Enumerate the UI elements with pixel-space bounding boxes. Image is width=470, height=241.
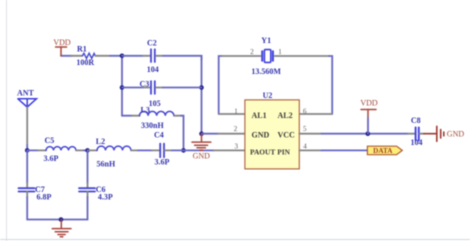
svg-text:1: 1 (278, 48, 282, 56)
wire row B left (122, 87, 143, 89)
node junction left rail row B (120, 85, 125, 90)
wire C4 to junction (172, 149, 184, 151)
svg-text:U2: U2 (263, 91, 273, 100)
crystal loop right vertical (329, 56, 332, 114)
svg-text:C2: C2 (147, 39, 157, 48)
node junction L3/C4/pin3 (181, 148, 186, 153)
capacitor C2 (151, 49, 155, 62)
wire VDD stub down to junction (367, 118, 369, 134)
wire C4 left pin (152, 149, 160, 151)
wire rail junction to pin2 (202, 133, 219, 135)
wire C8 right pin (419, 133, 424, 135)
svg-text:R1: R1 (77, 44, 87, 53)
pin 5 of U2 (299, 133, 321, 135)
crystal Y1 pin 1 line (275, 55, 329, 57)
wire L2 right pin (131, 149, 138, 151)
wire junction to L2 (88, 149, 90, 151)
wire left rail vertical (121, 56, 123, 116)
wire row A to C2 (122, 55, 143, 57)
wire pin5 to C8 (322, 133, 409, 135)
crystal loop left vertical (219, 56, 222, 114)
svg-text:100R: 100R (76, 58, 94, 67)
wire R1 left pin (71, 55, 82, 57)
svg-text:6: 6 (303, 108, 307, 116)
svg-text:C8: C8 (411, 116, 421, 125)
wire C2 right pin (156, 55, 163, 57)
svg-text:DATA: DATA (373, 147, 393, 155)
wire C4 right pin (165, 149, 172, 151)
svg-text:6.8P: 6.8P (37, 192, 52, 201)
svg-text:2: 2 (234, 125, 238, 133)
wire VDD stub to R1 (61, 55, 72, 57)
sheet border faint bottom line (0, 239, 470, 241)
pin 4 of U2 (299, 149, 321, 151)
pin 3 of U2 (214, 149, 245, 151)
capacitor C6 (79, 188, 95, 191)
power VDD left (56, 47, 67, 56)
svg-text:PAOUT: PAOUT (250, 147, 275, 156)
wire antenna node to C5 (27, 149, 38, 151)
wire L2 left pin (89, 149, 97, 151)
wire L3 right down to row D (181, 116, 184, 151)
svg-text:VDD: VDD (360, 98, 378, 107)
power VDD right (361, 110, 376, 119)
svg-text:3: 3 (234, 143, 238, 151)
wire junction to U2 pin3 (184, 149, 215, 151)
svg-text:ANT: ANT (17, 89, 35, 98)
node junction bottom ground (59, 217, 64, 222)
node junction right rail row B (199, 85, 204, 90)
capacitor C4 (160, 144, 164, 158)
node junction C5/L2/C6 (85, 148, 90, 153)
wire C3 to right rail (163, 87, 202, 89)
capacitor C7 (19, 188, 35, 191)
svg-text:105: 105 (149, 99, 161, 108)
wire C6 branch vertical (87, 150, 89, 183)
wire antenna vertical (26, 107, 28, 145)
wire C7 bottom to bottom rail (26, 192, 28, 198)
node junction right rail pin2 (199, 131, 204, 136)
svg-text:PIN: PIN (277, 147, 290, 156)
svg-text:C5: C5 (45, 136, 55, 145)
ground sideways right (424, 126, 444, 141)
svg-text:104: 104 (411, 138, 423, 147)
svg-text:L2: L2 (96, 137, 105, 146)
ground GND under rail (192, 134, 211, 150)
wire C8 left pin (408, 133, 415, 135)
svg-text:AL2: AL2 (278, 111, 293, 120)
wire antenna to row D (26, 145, 28, 150)
wire C5 to junction (84, 149, 88, 151)
wire C5 left pin (38, 149, 46, 151)
svg-text:4.3P: 4.3P (98, 192, 113, 201)
svg-text:330nH: 330nH (141, 121, 164, 130)
wire R1 to left rail (110, 55, 122, 57)
svg-text:L3: L3 (141, 106, 150, 115)
svg-text:GND: GND (252, 130, 270, 139)
wire L2 to C4 (138, 149, 152, 151)
svg-text:VDD: VDD (53, 38, 71, 47)
svg-text:C4: C4 (154, 131, 164, 140)
antenna ANT (18, 99, 37, 107)
inductor L2 (97, 146, 131, 150)
svg-text:2: 2 (250, 48, 254, 56)
node junction antenna row D (25, 148, 30, 153)
svg-text:1: 1 (234, 108, 238, 116)
crystal Y1 (262, 50, 273, 63)
node junction VDD on pin5 wire (366, 131, 371, 136)
inductor L3 (140, 111, 174, 115)
capacitor C3 (151, 81, 155, 94)
resistor R1 (82, 53, 95, 58)
wire C2 left pin (143, 55, 150, 57)
pin 2 of U2 (218, 133, 245, 135)
svg-text:5: 5 (303, 125, 307, 133)
wire L3 right pin (174, 115, 181, 117)
svg-text:3.6P: 3.6P (155, 158, 170, 167)
svg-text:C3: C3 (140, 80, 150, 89)
wire pin4 to DATA port (322, 149, 368, 151)
wire R1 right pin (95, 55, 110, 57)
wire C2 to right rail (163, 56, 202, 60)
U2 chip body (245, 100, 299, 169)
node junction left rail row A (120, 54, 125, 59)
wire right rail vertical (201, 56, 203, 134)
pin 1 of U2 (219, 113, 245, 115)
svg-text:AL1: AL1 (252, 111, 267, 120)
port DATA flag (367, 146, 402, 155)
crystal Y1 pin 2 line (222, 55, 261, 57)
svg-text:GND: GND (193, 151, 211, 160)
capacitor C8 (416, 127, 419, 140)
wire C6 bottom to bottom rail (87, 192, 89, 198)
wire C3 left pin (143, 87, 150, 89)
svg-text:GND: GND (447, 130, 465, 139)
sheet border faint left line (6, 0, 8, 241)
wire L3 left pin (132, 115, 140, 117)
svg-text:4: 4 (303, 142, 307, 150)
inductor-symbol C5 (46, 147, 76, 151)
wire C7 branch vertical (26, 150, 28, 183)
ground earth bottom (52, 220, 71, 237)
svg-text:56nH: 56nH (97, 159, 116, 168)
wire C3 right pin (156, 87, 163, 89)
pin 6 of U2 (299, 113, 332, 115)
svg-text:13.560M: 13.560M (251, 67, 281, 76)
svg-text:VCC: VCC (278, 130, 296, 139)
svg-text:Y1: Y1 (261, 36, 271, 45)
wire C5 right pin (76, 149, 84, 151)
wire left rail to L3 (122, 115, 132, 117)
svg-text:104: 104 (147, 65, 159, 74)
svg-text:3.6P: 3.6P (44, 154, 59, 163)
